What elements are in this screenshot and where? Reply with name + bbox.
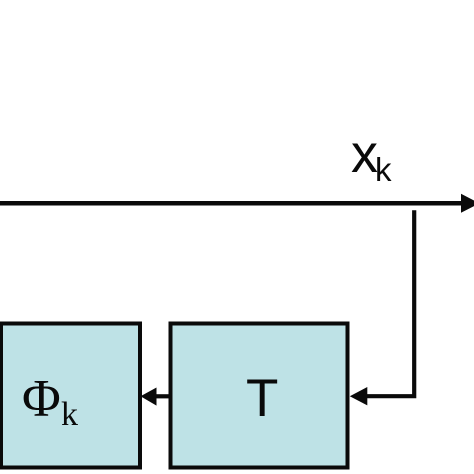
- svg-text:k: k: [375, 151, 392, 188]
- svg-text:T: T: [246, 369, 278, 428]
- svg-text:Φ: Φ: [22, 370, 61, 428]
- block T (delay block): [171, 324, 348, 468]
- arrowhead into T: [350, 387, 368, 405]
- block PHI_k (state transition block): [1, 324, 140, 468]
- arrowhead into PHI: [141, 388, 157, 406]
- svg-text:k: k: [61, 396, 78, 433]
- wire: from T to PHI block: [155, 394, 171, 398]
- svg-text:x: x: [351, 124, 378, 184]
- arrowhead right: [461, 194, 474, 213]
- wire: main horizontal signal line x_k: [0, 201, 462, 206]
- wire: feedback branch from node down and left into T: [366, 210, 414, 396]
